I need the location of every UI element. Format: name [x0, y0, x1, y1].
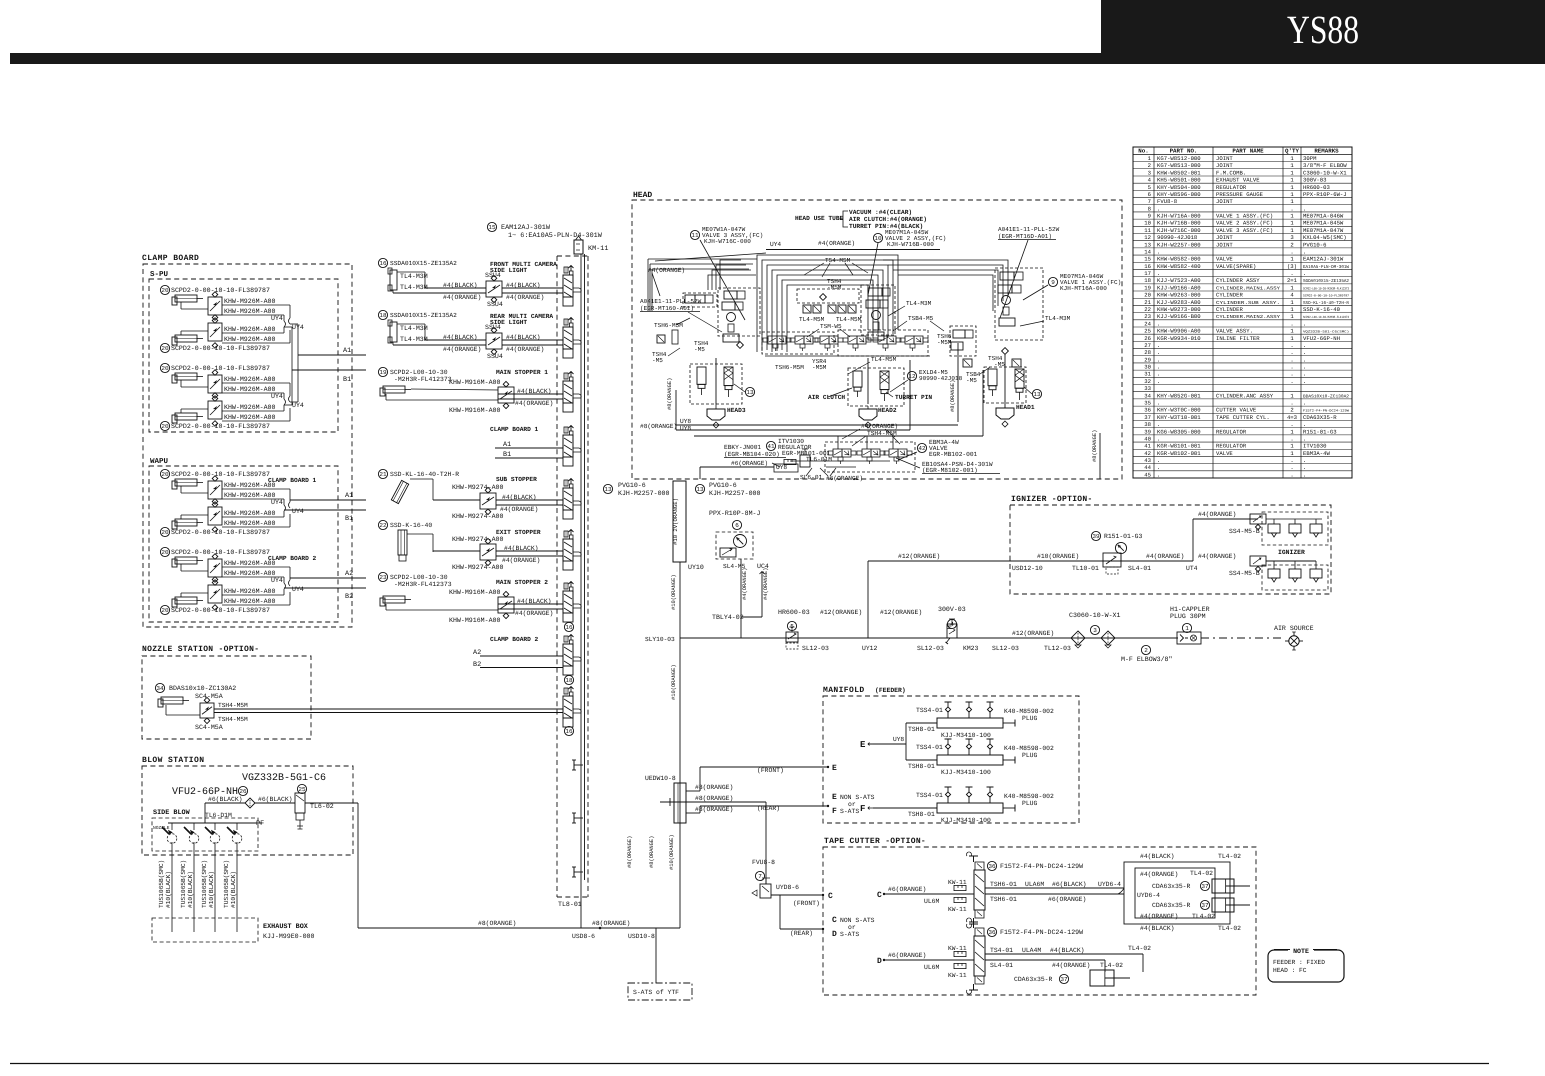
wires S-PU outputs A1 B1	[290, 323, 298, 325]
svg-text:UYD6-4: UYD6-4	[1137, 892, 1160, 899]
bottom rule	[10, 1063, 1489, 1065]
cylinder SCPD2 368	[160, 363, 169, 372]
svg-text:KHW-M926M-A00: KHW-M926M-A00	[224, 510, 275, 517]
svg-text:KJH-W716C-000: KJH-W716C-000	[1157, 227, 1201, 234]
svg-text:11: 11	[691, 232, 699, 239]
svg-text:KW-11: KW-11	[948, 945, 967, 952]
svg-text:TL4-02: TL4-02	[1128, 945, 1151, 952]
svg-text:KHW-M926M-A00: KHW-M926M-A00	[224, 298, 275, 305]
svg-text:TSH4-M5M: TSH4-M5M	[218, 702, 248, 709]
svg-text:KHW-W9263-000: KHW-W9263-000	[1157, 292, 1201, 299]
svg-text:F15T2-F4-PN-DC24-129W: F15T2-F4-PN-DC24-129W	[1303, 409, 1349, 413]
svg-text:A1: A1	[343, 347, 351, 355]
svg-text:KHW-M926M-A00: KHW-M926M-A00	[224, 598, 275, 605]
svg-text:CDA63x35-R: CDA63x35-R	[1014, 976, 1053, 983]
svg-text:#4(ORANGE): #4(ORANGE)	[506, 346, 544, 353]
cylinder BDAS10x10	[155, 683, 164, 692]
svg-text:T54-M5M: T54-M5M	[825, 257, 851, 264]
svg-text:.: .	[1290, 270, 1293, 277]
svg-text:SL6-01: SL6-01	[800, 474, 823, 481]
svg-text:UY4: UY4	[271, 577, 283, 584]
svg-text:(3): (3)	[1287, 263, 1297, 270]
svg-text:TAPE CUTTER -OPTION-: TAPE CUTTER -OPTION-	[824, 837, 926, 846]
svg-text:B2: B2	[473, 661, 481, 669]
svg-text:7: 7	[758, 873, 762, 880]
svg-text:.: .	[1157, 364, 1160, 371]
node E entry	[827, 766, 829, 768]
svg-text:SCPD2-0-00-10-10-FL389787: SCPD2-0-00-10-10-FL389787	[171, 529, 270, 536]
funnel HEAD1	[996, 408, 1014, 419]
svg-text:20: 20	[1144, 292, 1151, 299]
svg-text:KJH-W716B-000: KJH-W716B-000	[1157, 220, 1201, 227]
svg-text:SSD-K-16-40: SSD-K-16-40	[1303, 306, 1341, 313]
cylinder CDA63x35 C1	[1212, 879, 1234, 893]
svg-text:25: 25	[1144, 328, 1151, 335]
wires WAPU outputs ('A1', 'B1')	[290, 499, 366, 501]
svg-text:PART NO.: PART NO.	[1170, 148, 1198, 155]
svg-text:TUS1065B(SMC): TUS1065B(SMC)	[201, 860, 208, 908]
wires sub stopper	[433, 499, 480, 501]
svg-text:E: E	[860, 740, 866, 750]
svg-text:PVG10-6: PVG10-6	[618, 482, 646, 489]
svg-text:18: 18	[1144, 277, 1151, 284]
svg-text:42: 42	[918, 445, 926, 452]
svg-text:#8(ORANGE): #8(ORANGE)	[478, 920, 516, 927]
svg-text:(EGR-M8102-001): (EGR-M8102-001)	[922, 467, 978, 474]
svg-text:MAIN STOPPER 1: MAIN STOPPER 1	[496, 369, 548, 376]
svg-text:S-ATS of YTF: S-ATS of YTF	[633, 989, 679, 996]
svg-text:26: 26	[239, 788, 247, 795]
svg-text:.: .	[1290, 471, 1293, 478]
wire side blow header	[168, 822, 262, 824]
svg-text:#12(ORANGE): #12(ORANGE)	[898, 553, 940, 560]
svg-text:ITV1030: ITV1030	[1303, 443, 1327, 450]
wires clamp group 290	[180, 302, 182, 309]
svg-text:20: 20	[161, 471, 169, 478]
wire ignizer feed	[868, 560, 1193, 562]
svg-text:37: 37	[1201, 902, 1209, 909]
svg-text:KHW-M926M-A00: KHW-M926M-A00	[224, 520, 275, 527]
svg-text:#10(ORANGE): #10(ORANGE)	[671, 664, 677, 700]
svg-text:3: 3	[1093, 627, 1097, 634]
svg-text:2: 2	[1290, 241, 1293, 248]
svg-text:F.M.COMB.: F.M.COMB.	[1216, 169, 1246, 176]
svg-text:41: 41	[1144, 443, 1151, 450]
svg-text:ME07M1A-045W: ME07M1A-045W	[1303, 220, 1344, 227]
svg-text:KHW-M926M-A00: KHW-M926M-A00	[224, 482, 275, 489]
svg-text:7: 7	[1148, 198, 1151, 205]
valve KHW lower 552	[208, 585, 222, 603]
svg-text:TSS4-01: TSS4-01	[916, 707, 943, 714]
cylinder sub stopper 21	[378, 469, 387, 478]
svg-text:F15T2-F4-PN-DC24-129W: F15T2-F4-PN-DC24-129W	[1000, 929, 1083, 936]
svg-text:TL4-M3M: TL4-M3M	[400, 284, 428, 291]
cylinder SCPD2 lower 474	[172, 521, 177, 529]
svg-text:KW-11: KW-11	[948, 972, 967, 979]
svg-text:TL8-01: TL8-01	[558, 901, 582, 908]
head valve row right	[838, 330, 928, 356]
svg-text:13: 13	[1033, 391, 1041, 398]
svg-text:.: .	[1157, 356, 1160, 363]
svg-text:#4(ORANGE): #4(ORANGE)	[1140, 913, 1178, 920]
svg-text:12: 12	[908, 373, 916, 380]
svg-text:KHY-W3T10-001: KHY-W3T10-001	[1157, 414, 1201, 421]
svg-text:#10(ORANGE): #10(ORANGE)	[1037, 553, 1079, 560]
svg-text:20: 20	[161, 529, 169, 536]
svg-text:.: .	[1303, 342, 1306, 349]
valve assy 2 module	[861, 285, 895, 335]
svg-text:(FRONT): (FRONT)	[793, 900, 820, 907]
svg-text:F: F	[832, 807, 837, 816]
svg-text:23: 23	[1144, 313, 1151, 320]
svg-text:#4(BLACK): #4(BLACK)	[506, 334, 541, 341]
svg-text:34: 34	[1144, 392, 1151, 399]
valve SS4-M5-B lower	[1250, 556, 1266, 566]
svg-text:32: 32	[1144, 378, 1151, 385]
svg-text:36: 36	[988, 929, 996, 936]
svg-text:#8(ORANGE): #8(ORANGE)	[950, 380, 956, 412]
valve KHW lower 290	[208, 323, 222, 341]
svg-text:TL10-01: TL10-01	[1072, 565, 1099, 572]
svg-text:KGR-W8102-001: KGR-W8102-001	[1157, 450, 1201, 457]
svg-text:31: 31	[1144, 371, 1151, 378]
svg-text:.: .	[1290, 364, 1293, 371]
svg-text:SSU4: SSU4	[485, 324, 501, 331]
wires cutter C	[985, 887, 1124, 889]
head valve row left	[762, 332, 834, 354]
valve assy 3 callout	[690, 230, 699, 239]
svg-text:UY8: UY8	[680, 418, 691, 425]
svg-text:KG6-W8305-000: KG6-W8305-000	[1157, 428, 1201, 435]
svg-text:9: 9	[1148, 213, 1151, 220]
svg-text:MANIFOLD: MANIFOLD	[823, 686, 865, 695]
top rule bar	[10, 53, 1545, 64]
svg-text:SCPD2-0-00-10-10-FL389787: SCPD2-0-00-10-10-FL389787	[171, 471, 270, 478]
svg-text:44: 44	[1144, 464, 1151, 471]
svg-text:37: 37	[1144, 414, 1151, 421]
S-ATS box	[628, 983, 692, 1000]
wires head columns	[715, 358, 717, 404]
svg-text:.: .	[1303, 349, 1306, 356]
bulkhead connector row 1	[563, 275, 573, 297]
svg-text:VALVE: VALVE	[1216, 450, 1233, 457]
svg-text:1: 1	[1185, 625, 1189, 632]
svg-text:KHW-M926M-A00: KHW-M926M-A00	[224, 492, 275, 499]
svg-text:KHW-W8582-000: KHW-W8582-000	[1157, 256, 1201, 263]
svg-text:TL4-M3M: TL4-M3M	[400, 273, 428, 280]
svg-text:-M5M: -M5M	[937, 339, 952, 346]
svg-text:KG7-W8513-000: KG7-W8513-000	[1157, 162, 1201, 169]
funnel HEAD3	[707, 409, 725, 420]
svg-text:TURRET PIN: TURRET PIN	[895, 394, 932, 401]
svg-text:ULA4M: ULA4M	[1022, 947, 1041, 954]
svg-text:#4(ORANGE): #4(ORANGE)	[818, 240, 855, 247]
regulator R151-01-G3	[1091, 531, 1100, 540]
svg-text:34: 34	[156, 685, 164, 692]
svg-text:#8(ORANGE): #8(ORANGE)	[695, 806, 733, 813]
svg-text:SCPD2-0-00-10-10-FL389787: SCPD2-0-00-10-10-FL389787	[171, 549, 270, 556]
wire blow to USD8-6	[357, 803, 359, 928]
svg-text:USD12-10: USD12-10	[1012, 565, 1043, 572]
svg-text:HEAD USE TUBE: HEAD USE TUBE	[795, 215, 844, 222]
svg-text:KHW-M9274-A00: KHW-M9274-A00	[452, 513, 503, 520]
wires clamp group 552	[180, 564, 182, 571]
svg-text:300V-03: 300V-03	[938, 606, 966, 613]
bulkhead connector row 5	[563, 488, 573, 510]
svg-text:UY4: UY4	[770, 241, 781, 248]
svg-text:#4(BLACK): #4(BLACK)	[1140, 925, 1175, 932]
svg-text:41: 41	[767, 443, 775, 450]
svg-text:18: 18	[565, 677, 573, 684]
cylinder main stopper 2	[378, 572, 387, 581]
wires main stopper 1	[385, 394, 387, 400]
svg-text:AIR SOURCE: AIR SOURCE	[1274, 625, 1314, 632]
svg-text:D: D	[832, 930, 837, 939]
svg-text:TSH8-01: TSH8-01	[908, 763, 935, 770]
svg-text:TSH6-M5M: TSH6-M5M	[775, 364, 804, 371]
tube bundle head3 feed	[648, 258, 757, 260]
svg-text:ME07M1A-046W: ME07M1A-046W	[1303, 213, 1344, 220]
valve assy 1 callout	[1048, 277, 1057, 286]
valve VQZ332B TL6-02	[295, 793, 305, 813]
svg-text:.: .	[1290, 349, 1293, 356]
valve KHW upper 290	[208, 297, 222, 315]
valve KHW lower 474	[208, 507, 222, 525]
svg-text:KHW-M926M-A00: KHW-M926M-A00	[224, 560, 275, 567]
svg-text:KHW-M9274-A00: KHW-M9274-A00	[452, 536, 503, 543]
svg-text:USD10-8: USD10-8	[628, 933, 655, 940]
svg-text:EXHAUST BOX: EXHAUST BOX	[263, 923, 309, 931]
node C entry	[822, 894, 824, 896]
svg-text:TBLY4-02: TBLY4-02	[712, 614, 744, 621]
svg-text:No.: No.	[1138, 148, 1148, 155]
svg-text:C: C	[877, 891, 882, 900]
cylinder exit stopper 22	[378, 520, 387, 529]
svg-text:KJH-W716C-000: KJH-W716C-000	[704, 238, 751, 245]
joint PVG10-6 right callout	[695, 484, 704, 493]
svg-text:TUS1065B(SMC): TUS1065B(SMC)	[180, 860, 187, 908]
svg-text:KHW-M926M-A00: KHW-M926M-A00	[224, 570, 275, 577]
cutter valve block C	[974, 870, 985, 910]
exhaust box	[152, 918, 258, 942]
svg-text:EA10A5-PLN-DM-301W: EA10A5-PLN-DM-301W	[1303, 265, 1349, 270]
svg-text:PRESSURE GAUGE: PRESSURE GAUGE	[1216, 191, 1264, 198]
svg-text:KHW-W9906-A00: KHW-W9906-A00	[1157, 328, 1201, 335]
svg-text:USD8-6: USD8-6	[572, 933, 595, 940]
svg-text:43: 43	[1144, 457, 1151, 464]
head1 cylinders	[984, 367, 1026, 403]
svg-text:UY4: UY4	[271, 393, 283, 400]
svg-text:39: 39	[1144, 428, 1151, 435]
svg-text:FEEDER : FIXED: FEEDER : FIXED	[1273, 959, 1325, 966]
svg-text:TSM-W5: TSM-W5	[820, 323, 842, 330]
joint PVG10-6 left callout	[603, 484, 612, 493]
svg-text:UYD8-6: UYD8-6	[776, 884, 799, 891]
svg-text:#10 2V(ORANGE): #10 2V(ORANGE)	[672, 498, 679, 545]
svg-text:TL12-03: TL12-03	[1044, 645, 1071, 652]
cylinder SCPD2 552	[160, 547, 169, 556]
svg-text:16: 16	[565, 728, 573, 735]
blow nozzle 1	[162, 827, 169, 834]
svg-text:.: .	[1290, 371, 1293, 378]
svg-text:KJJ-W9166-A00: KJJ-W9166-A00	[1157, 284, 1201, 291]
svg-text:KHY-W8504-000: KHY-W8504-000	[1157, 184, 1201, 191]
svg-text:(FEEDER): (FEEDER)	[875, 687, 906, 694]
svg-text:.: .	[1290, 457, 1293, 464]
svg-text:CYLINDER.MAIN2.ASSY: CYLINDER.MAIN2.ASSY	[1216, 314, 1280, 320]
svg-text:.: .	[1157, 399, 1160, 406]
svg-text:-M5M: -M5M	[827, 284, 842, 291]
svg-text:(EGR-MB104-020): (EGR-MB104-020)	[724, 451, 780, 458]
svg-text:KHW-M926M-A00: KHW-M926M-A00	[224, 414, 275, 421]
svg-text:REGULATOR: REGULATOR	[1216, 443, 1247, 450]
cylinder SCPD2 lower 290	[172, 337, 177, 345]
valve assy 2 callout	[873, 233, 882, 242]
cylinder SCPD2 290	[160, 285, 169, 294]
svg-text:TL4-M3M: TL4-M3M	[906, 300, 932, 307]
svg-text:IGNIZER -OPTION-: IGNIZER -OPTION-	[1011, 495, 1093, 504]
svg-text:CYLINDER ASSY: CYLINDER ASSY	[1216, 277, 1260, 284]
svg-text:.: .	[1290, 320, 1293, 327]
svg-text:(FRONT): (FRONT)	[757, 767, 784, 774]
svg-text:KJH-M2257-000: KJH-M2257-000	[618, 490, 669, 497]
svg-text:KHY-W3T0C-000: KHY-W3T0C-000	[1157, 407, 1201, 414]
svg-text:NOTE: NOTE	[1293, 948, 1309, 955]
svg-text:TSH4-M5M: TSH4-M5M	[867, 430, 897, 437]
svg-text:KHW-M926M-A00: KHW-M926M-A00	[224, 386, 275, 393]
svg-text:KHW-M9274-A00: KHW-M9274-A00	[452, 484, 503, 491]
svg-text:SC4-M5A: SC4-M5A	[195, 724, 223, 731]
svg-text:B2: B2	[345, 593, 353, 601]
svg-text:.: .	[1303, 248, 1306, 255]
svg-text:TL4-M5M: TL4-M5M	[871, 356, 897, 363]
svg-text:UY4: UY4	[292, 508, 304, 515]
svg-text:KHW-M9274-A00: KHW-M9274-A00	[452, 564, 503, 571]
bulkhead connector row 4	[563, 435, 573, 457]
svg-text:SS4-M5-B: SS4-M5-B	[1229, 570, 1260, 577]
svg-text:AIR CLUTCH: AIR CLUTCH	[808, 394, 845, 401]
svg-text:ULA6M: ULA6M	[1025, 881, 1044, 888]
svg-text:KJH-W716A-000: KJH-W716A-000	[1157, 213, 1201, 220]
svg-text:-M5: -M5	[652, 357, 663, 364]
svg-text:S-ATS: S-ATS	[840, 931, 859, 938]
svg-text:F15T2-F4-PN-DC24-129W: F15T2-F4-PN-DC24-129W	[1000, 863, 1083, 870]
svg-text:#6(BLACK): #6(BLACK)	[208, 796, 243, 803]
svg-text:KHW-M926M-A00: KHW-M926M-A00	[224, 336, 275, 343]
svg-text:TL4-02: TL4-02	[1100, 962, 1123, 969]
svg-text:20: 20	[161, 423, 169, 430]
cylinder main stopper 1	[378, 367, 387, 376]
cutter cyl box C	[1124, 862, 1230, 924]
svg-text:.: .	[1157, 435, 1160, 442]
svg-text:SCPD2-L00-10-30: SCPD2-L00-10-30	[390, 574, 448, 581]
svg-text:SS4-M5-B: SS4-M5-B	[1229, 528, 1260, 535]
svg-text:PF: PF	[256, 820, 264, 828]
svg-text:TUS1065B(SMC): TUS1065B(SMC)	[158, 860, 165, 908]
callout 16	[564, 726, 573, 735]
svg-text:UY4: UY4	[271, 499, 283, 506]
svg-text:2: 2	[1290, 407, 1293, 414]
svg-text:13: 13	[746, 389, 754, 396]
svg-text:SGDA010X15-ZE135A2: SGDA010X15-ZE135A2	[1303, 279, 1349, 284]
svg-text:3: 3	[1290, 234, 1293, 241]
svg-text:SL12-03: SL12-03	[992, 645, 1019, 652]
svg-text:EBKY-JN001: EBKY-JN001	[724, 444, 761, 451]
svg-text:36: 36	[1144, 407, 1151, 414]
svg-text:.: .	[1290, 356, 1293, 363]
svg-text:CLAMP BOARD: CLAMP BOARD	[142, 254, 199, 263]
svg-text:KH5-W8501-000: KH5-W8501-000	[1157, 177, 1201, 184]
svg-text:NOZZLE STATION -OPTION-: NOZZLE STATION -OPTION-	[142, 645, 259, 654]
svg-text:#8(ORANGE): #8(ORANGE)	[649, 836, 655, 868]
svg-text:20: 20	[161, 345, 169, 352]
svg-text:R151-01-G3: R151-01-G3	[1303, 428, 1337, 435]
svg-text:TSH6-01: TSH6-01	[990, 881, 1017, 888]
svg-text:.: .	[1157, 270, 1160, 277]
svg-text:REMARKS: REMARKS	[1314, 148, 1339, 155]
svg-text:PLUG: PLUG	[1022, 752, 1038, 759]
svg-text:KM23: KM23	[963, 645, 979, 652]
cylinder assy 16 front camera	[378, 258, 387, 267]
svg-text:#10(BLACK): #10(BLACK)	[208, 871, 215, 908]
svg-text:NON S-ATS: NON S-ATS	[840, 917, 875, 924]
ignizer head box upper	[1262, 512, 1328, 545]
wires exit stopper	[433, 550, 480, 552]
svg-text:VFU2-66P-NH: VFU2-66P-NH	[1303, 335, 1340, 342]
wire to air source	[1201, 637, 1284, 639]
svg-text:B1: B1	[343, 376, 351, 384]
svg-text:KJH-M2257-000: KJH-M2257-000	[709, 490, 760, 497]
svg-text:.: .	[1290, 464, 1293, 471]
svg-text:KJH-W2257-000: KJH-W2257-000	[1157, 241, 1201, 248]
svg-text:VALVE(SPARE): VALVE(SPARE)	[1216, 263, 1256, 270]
parts table	[1133, 147, 1352, 478]
cutter valve block D	[974, 936, 985, 976]
svg-text:E: E	[832, 793, 837, 802]
svg-text:#4(ORANGE): #4(ORANGE)	[443, 346, 481, 353]
svg-text:#4(BLACK): #4(BLACK)	[1050, 947, 1085, 954]
svg-text:.: .	[1157, 378, 1160, 385]
svg-text:REGULATOR: REGULATOR	[1216, 428, 1247, 435]
svg-text:22: 22	[1144, 306, 1151, 313]
svg-text:TL4-02: TL4-02	[1218, 925, 1241, 932]
svg-text:KHW-M916M-A00: KHW-M916M-A00	[449, 617, 500, 624]
svg-text:SCPD2-L00-10-30: SCPD2-L00-10-30	[390, 369, 448, 376]
head3 cylinders	[690, 364, 742, 404]
valve main stopper 1	[498, 387, 514, 403]
svg-text:HEAD : FC: HEAD : FC	[1273, 967, 1307, 974]
svg-text:2=1: 2=1	[1287, 277, 1298, 284]
tube bundle right	[883, 260, 1008, 296]
svg-text:KHY-W8596-000: KHY-W8596-000	[1157, 191, 1201, 198]
title block YS88	[1101, 0, 1545, 53]
wire branch to ignizer	[867, 561, 869, 638]
svg-text:39: 39	[1092, 533, 1100, 540]
svg-text:.: .	[1157, 248, 1160, 255]
svg-text:KHW-M916M-A00: KHW-M916M-A00	[449, 407, 500, 414]
svg-text:VQZ332B-5G1-C6(SMC): VQZ332B-5G1-C6(SMC)	[1303, 330, 1349, 334]
svg-text:E: E	[832, 764, 837, 773]
manifold SS squares	[797, 289, 859, 303]
head3 left valves	[683, 293, 717, 307]
svg-text:KHW-M926M-A00: KHW-M926M-A00	[224, 404, 275, 411]
svg-text:TL4-M3M: TL4-M3M	[400, 336, 428, 343]
wire to S-ATS	[655, 928, 657, 983]
ignizer head box lower	[1262, 565, 1328, 590]
svg-text:#4(ORANGE): #4(ORANGE)	[861, 423, 898, 430]
svg-text:.: .	[1303, 205, 1306, 212]
svg-text:CDA63X35-R: CDA63X35-R	[1303, 414, 1337, 421]
